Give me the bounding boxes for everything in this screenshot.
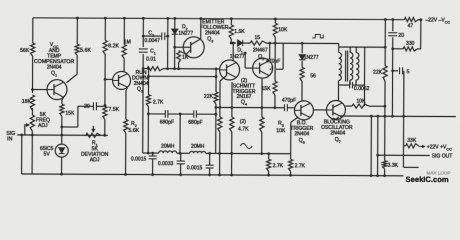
svg-text:1N277: 1N277 [230, 54, 245, 60]
svg-text:2.7K: 2.7K [153, 100, 164, 106]
svg-text:1N277: 1N277 [178, 31, 193, 37]
svg-text:0.0047: 0.0047 [145, 38, 161, 44]
svg-text:0.01: 0.01 [146, 57, 156, 63]
svg-text:3.3K: 3.3K [388, 163, 399, 169]
svg-text:56: 56 [310, 73, 316, 79]
svg-text:20: 20 [398, 33, 404, 39]
svg-text:5.6K: 5.6K [128, 128, 139, 134]
svg-text:1N277: 1N277 [304, 55, 319, 61]
svg-text:ADJ: ADJ [38, 123, 48, 129]
svg-text:2N404: 2N404 [134, 81, 149, 87]
svg-text:(2): (2) [240, 119, 247, 125]
svg-text:IN: IN [7, 136, 12, 142]
svg-text:15K: 15K [262, 86, 272, 92]
svg-text:2.7K: 2.7K [295, 163, 306, 169]
svg-text:22K: 22K [204, 94, 214, 100]
svg-text:470pF: 470pF [266, 59, 280, 65]
svg-text:4.7K: 4.7K [238, 127, 249, 133]
svg-text:2N467: 2N467 [253, 48, 268, 54]
svg-text:0.0062: 0.0062 [354, 86, 370, 92]
svg-text:5: 5 [407, 69, 410, 75]
svg-text:33K: 33K [407, 138, 417, 144]
svg-text:1K: 1K [182, 55, 189, 61]
svg-text:0.0015: 0.0015 [131, 156, 147, 162]
svg-text:5V: 5V [44, 152, 51, 158]
svg-text:5.6K: 5.6K [80, 48, 91, 54]
svg-text:18K: 18K [22, 99, 32, 105]
svg-text:10K: 10K [276, 128, 286, 134]
svg-text:15: 15 [254, 35, 260, 41]
svg-text:2.7K: 2.7K [273, 163, 284, 169]
svg-text:2N404: 2N404 [294, 131, 309, 137]
svg-text:SeekIC.com: SeekIC.com [406, 175, 449, 184]
svg-text:470pF: 470pF [282, 98, 296, 104]
svg-text:7.5K: 7.5K [108, 107, 119, 113]
svg-text:20MH: 20MH [191, 144, 205, 150]
svg-text:10K: 10K [278, 27, 288, 33]
svg-text:8.2K: 8.2K [108, 43, 119, 49]
svg-text:680pF: 680pF [188, 120, 202, 126]
svg-text:22K: 22K [373, 70, 383, 76]
svg-text:20MH: 20MH [161, 144, 175, 150]
svg-text:2N404: 2N404 [330, 130, 345, 136]
svg-text:10K: 10K [356, 99, 366, 105]
svg-text:330: 330 [406, 41, 415, 47]
svg-text:1M: 1M [124, 39, 131, 45]
svg-text:1.5K: 1.5K [234, 29, 245, 35]
svg-text:680pF: 680pF [160, 120, 174, 126]
svg-text:SIG OUT: SIG OUT [432, 153, 453, 159]
svg-text:47: 47 [407, 23, 413, 29]
svg-text:20: 20 [84, 104, 90, 110]
svg-text:15K: 15K [65, 111, 75, 117]
svg-text:ADJ: ADJ [90, 157, 100, 163]
svg-text:56K: 56K [20, 48, 30, 54]
svg-text:0.0033: 0.0033 [158, 161, 174, 167]
svg-text:0.0015: 0.0015 [187, 165, 203, 171]
